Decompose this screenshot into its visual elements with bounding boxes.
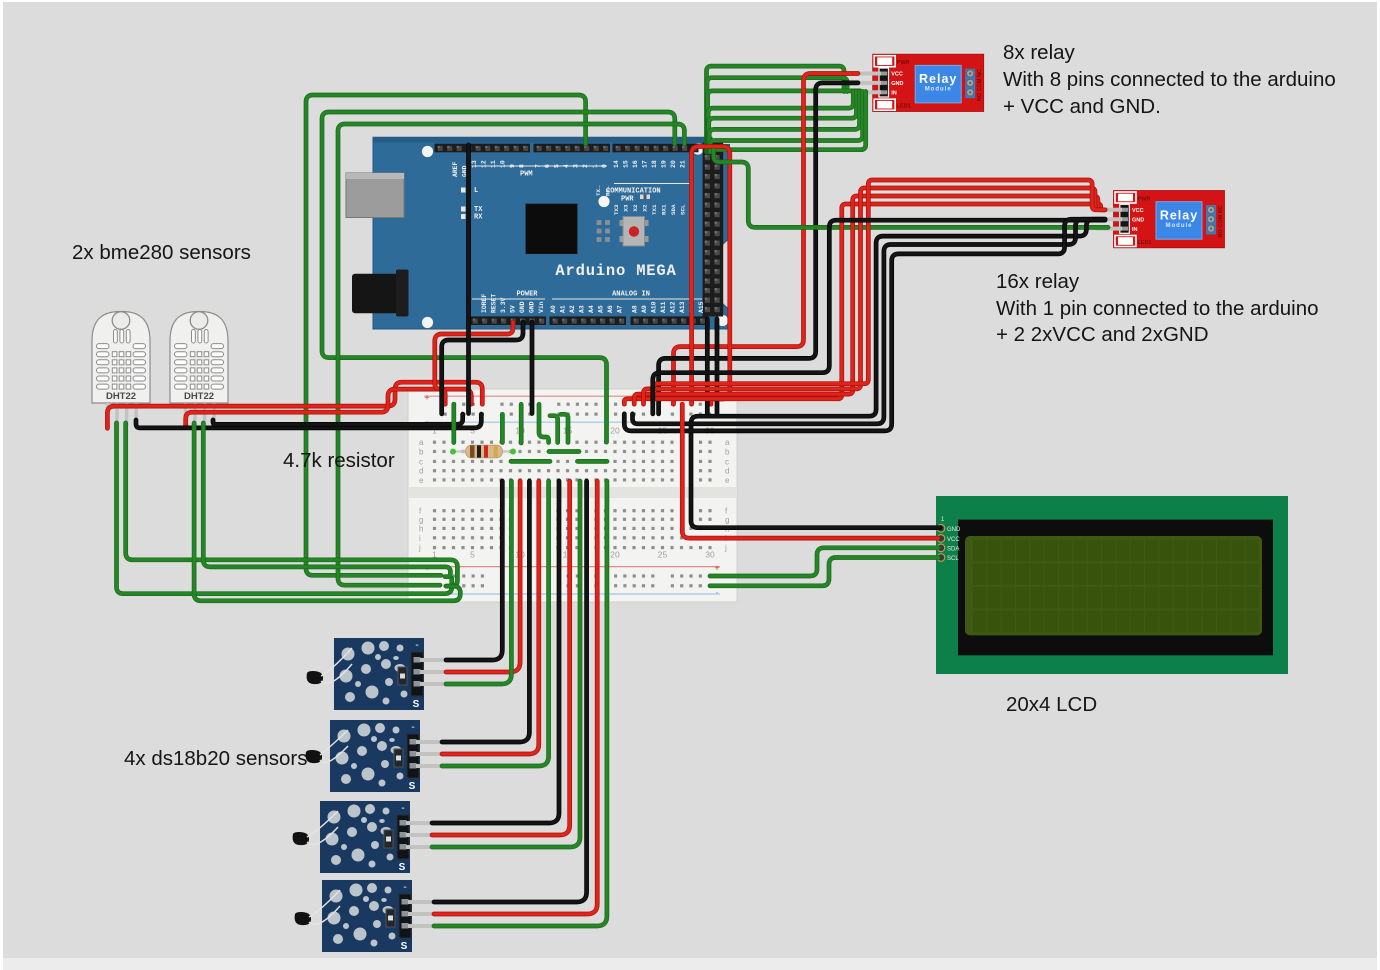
svg-text:Vin: Vin — [538, 301, 545, 313]
svg-text:-: - — [716, 588, 719, 598]
svg-text:11: 11 — [490, 160, 497, 168]
svg-text:3.3V: 3.3V — [500, 297, 507, 313]
svg-text:A1: A1 — [560, 305, 567, 313]
svg-text:A2: A2 — [569, 305, 576, 313]
wire: 16x relay VCC #3 to + rail — [644, 188, 1106, 404]
wire: arduino pin to 8x relay IN #3 — [708, 91, 860, 152]
svg-text:IOREF: IOREF — [481, 294, 488, 313]
svg-text:A4: A4 — [588, 305, 595, 313]
wire: 16x relay GND #2 + LCD GND — [691, 219, 1105, 528]
svg-text:PWR: PWR — [897, 60, 910, 66]
svg-text:A3: A3 — [579, 305, 586, 313]
svg-text:A8: A8 — [632, 305, 639, 313]
right double pin header — [703, 143, 724, 317]
svg-text:30: 30 — [705, 550, 715, 560]
wire: arduino pin to 8x relay IN #8 — [710, 92, 865, 153]
svg-text:GND: GND — [947, 527, 961, 533]
USB connector — [346, 173, 404, 218]
wire: ds18b20 #3 GND — [432, 481, 559, 823]
svg-text:d: d — [419, 467, 423, 476]
svg-text:S: S — [399, 862, 406, 873]
wire: arduino pin to 8x relay IN #5 — [709, 92, 857, 153]
svg-text:4x ds18b20 sensors: 4x ds18b20 sensors — [124, 747, 307, 770]
wire: ds18b20 #1 DATA — [446, 481, 511, 684]
wire: staple +rail to row a col3 — [451, 404, 456, 442]
svg-text:PWM: PWM — [520, 171, 533, 179]
svg-text:A12: A12 — [670, 301, 677, 313]
wire: pin2 loop to bottom rail — [306, 95, 586, 575]
wire: 16x relay GND #1 — [653, 220, 1105, 414]
svg-text:g: g — [725, 515, 729, 524]
DHT22 sensor #2 (bme280) — [170, 312, 228, 427]
svg-text:IN: IN — [1132, 227, 1138, 233]
svg-text:20: 20 — [610, 426, 620, 436]
top pin header (14..21) — [613, 144, 699, 153]
wire: row c jumper cols16-19 — [578, 459, 608, 464]
wire: 8x relay VCC to + rail — [674, 74, 859, 405]
wire: row b jumper cols13-16 — [549, 449, 579, 454]
wire: 5V to + rail — [435, 322, 513, 404]
ds18b20 sensor blob #2 — [306, 730, 348, 763]
svg-text:NO COM NC: NO COM NC — [1218, 205, 1224, 237]
wire: staple col8 — [500, 414, 505, 442]
svg-text:18: 18 — [651, 160, 658, 168]
svg-text:IN: IN — [891, 91, 897, 97]
svg-text:A11: A11 — [660, 301, 667, 313]
wire: +rail jumper loop around header — [692, 147, 730, 405]
ds18b20 module #1 — [334, 638, 446, 710]
svg-text:Module: Module — [1166, 223, 1193, 229]
svg-text:20: 20 — [610, 550, 620, 560]
svg-text:5V: 5V — [510, 305, 517, 313]
svg-text:20x4 LCD: 20x4 LCD — [1006, 693, 1097, 716]
DHT22 sensor #1 (bme280) — [92, 312, 150, 427]
wire: DHT1 GND to - rail — [136, 414, 481, 428]
svg-text:+: + — [424, 393, 429, 403]
wire: ds18b20 #1 VCC — [446, 481, 520, 672]
svg-text:POWER: POWER — [516, 291, 538, 299]
ds18b20 sensor blob #4 — [295, 890, 340, 925]
svg-text:TX3: TX3 — [613, 204, 620, 215]
svg-text:S: S — [409, 781, 416, 792]
svg-text:-: - — [401, 803, 404, 814]
svg-text:h: h — [419, 524, 423, 533]
wire: DHT2 GND to - rail — [213, 414, 463, 424]
svg-text:+ VCC and GND.: + VCC and GND. — [1003, 95, 1161, 118]
resistor R1 4.7k — [450, 445, 516, 458]
wire: +rail to LCD VCC — [682, 404, 938, 538]
ds18b20 module #4 — [322, 880, 434, 952]
wire: staple col12-13 — [539, 404, 549, 442]
svg-text:COMMUNICATION: COMMUNICATION — [606, 188, 661, 196]
svg-text:SDA: SDA — [670, 204, 677, 215]
bottom ANALOG header A0-A7 — [550, 316, 627, 325]
svg-text:L: L — [474, 187, 478, 195]
8x relay module K1 — [873, 54, 984, 111]
svg-text:16x relay: 16x relay — [996, 270, 1080, 293]
svg-text:e: e — [419, 476, 424, 485]
svg-text:SCL: SCL — [947, 556, 959, 562]
svg-text:PWR: PWR — [621, 196, 634, 204]
20x4 LCD module — [922, 496, 1288, 674]
svg-text:4.7k resistor: 4.7k resistor — [283, 449, 395, 472]
svg-text:25: 25 — [658, 550, 668, 560]
svg-text:20: 20 — [670, 160, 677, 168]
svg-text:VCC: VCC — [947, 537, 960, 543]
svg-text:A13: A13 — [679, 301, 686, 313]
svg-text:b: b — [419, 448, 424, 457]
top pin header (7..0) — [534, 144, 611, 153]
svg-text:+ 2 2xVCC and 2xGND: + 2 2xVCC and 2xGND — [996, 323, 1209, 346]
wire: ds18b20 #4 VCC — [434, 481, 597, 914]
wire: arduino pin to 8x relay IN #4 — [708, 92, 853, 153]
svg-text:b: b — [725, 448, 730, 457]
svg-text:ANALOG IN: ANALOG IN — [612, 291, 650, 299]
wire: DHT1 data A to bottom rail — [117, 423, 452, 594]
relay K2 pin stubs — [1096, 210, 1122, 229]
wire: ds18b20 #2 VCC — [442, 481, 539, 754]
svg-text:13: 13 — [471, 160, 478, 168]
wire: 8x relay GND to - rail — [659, 83, 858, 414]
wire: arduino pin to 8x relay IN #2 — [707, 78, 847, 152]
wire: staple col14 — [550, 416, 558, 443]
svg-text:j: j — [724, 544, 727, 553]
svg-text:With 8 pins connected to the a: With 8 pins connected to the arduino — [1003, 68, 1336, 91]
svg-text:g: g — [419, 515, 423, 524]
wire: ds18b20 #1 GND — [446, 481, 502, 660]
svg-text:A10: A10 — [651, 301, 658, 313]
svg-text:A5: A5 — [598, 305, 605, 313]
svg-text:i: i — [419, 534, 421, 543]
wire: ds18b20 #3 VCC — [432, 481, 570, 835]
wire: top GND down to - rail — [466, 145, 471, 414]
wire: 16x relay GND #4 — [624, 219, 1105, 431]
wire: ds18b20 #4 DATA — [434, 481, 607, 926]
wire: DHT1 VCC to + rail — [107, 382, 482, 428]
ds18b20 module #3 — [320, 801, 432, 873]
svg-text:Arduino MEGA: Arduino MEGA — [555, 262, 676, 280]
svg-text:-: - — [411, 722, 414, 733]
wire: bottom rail to LCD SCL — [710, 558, 938, 586]
svg-text:GND: GND — [529, 301, 536, 313]
svg-text:DHT22: DHT22 — [184, 391, 214, 402]
wire: row c jumper cols9-13 — [511, 459, 550, 464]
svg-text:PWR: PWR — [1138, 197, 1151, 203]
svg-text:14: 14 — [613, 160, 620, 168]
ds18b20 sensor blob #3 — [293, 811, 338, 845]
wire: GND to - rail A — [442, 322, 523, 414]
wire: 16x relay VCC #1 to + rail — [624, 204, 1105, 404]
svg-text:VCC: VCC — [1132, 208, 1144, 214]
svg-text:A6: A6 — [607, 305, 614, 313]
svg-text:A9: A9 — [641, 305, 648, 313]
reset button — [620, 212, 648, 250]
wire: ds18b20 #2 DATA — [442, 481, 549, 766]
Arduino MEGA board U1 — [346, 137, 730, 329]
svg-text:LED1: LED1 — [897, 104, 911, 110]
svg-text:c: c — [419, 457, 423, 466]
wire: 16x relay VCC #2 to + rail — [634, 196, 1105, 404]
wire: A15 gnd to - rail — [715, 319, 720, 414]
svg-text:2x bme280 sensors: 2x bme280 sensors — [72, 241, 251, 264]
wire: 16x relay GND #3 — [633, 219, 1106, 424]
svg-text:Module: Module — [925, 87, 952, 93]
16x relay module K2 — [1114, 191, 1225, 248]
svg-text:GND: GND — [1132, 217, 1144, 223]
wire: DHT2 VCC to + rail — [186, 389, 472, 425]
svg-text:Relay: Relay — [919, 72, 957, 86]
wire: arduino pin to 16x relay IN — [714, 150, 1109, 227]
svg-text:TX→: TX→ — [595, 185, 602, 196]
wire: A14 gnd to - rail — [705, 319, 710, 414]
svg-text:RX1: RX1 — [661, 204, 668, 215]
wire: arduino pin to 8x relay IN #1 — [707, 66, 845, 152]
svg-text:17: 17 — [642, 160, 649, 168]
svg-text:A15: A15 — [698, 301, 705, 313]
wire: ds18b20 #4 GND — [434, 481, 587, 902]
wire: GND to - rail B — [530, 322, 535, 414]
wire: DHT2 data A to bottom rail — [194, 423, 460, 601]
wire: bottom rail to LCD SDA — [710, 548, 938, 576]
wire: staple col15 — [561, 414, 568, 442]
svg-text:-: - — [403, 882, 406, 893]
svg-text:AREF: AREF — [452, 161, 459, 177]
svg-text:e: e — [725, 476, 730, 485]
svg-text:Relay: Relay — [1160, 209, 1198, 223]
ISP pin grid — [594, 218, 613, 244]
svg-text:S: S — [401, 941, 408, 952]
wire: arduino pin to 8x relay IN #7 — [710, 92, 863, 153]
svg-text:SDA: SDA — [947, 546, 959, 552]
svg-text:S: S — [413, 699, 420, 710]
wire: DHT2 data B to bottom rail — [203, 423, 450, 577]
svg-text:21: 21 — [680, 160, 687, 168]
svg-text:With 1 pin connected to the ar: With 1 pin connected to the arduino — [996, 297, 1319, 320]
svg-text:12: 12 — [481, 160, 488, 168]
svg-text:+: + — [714, 563, 719, 573]
svg-text:c: c — [725, 457, 729, 466]
wire: SCL loop to bottom rail — [338, 124, 684, 585]
svg-text:d: d — [725, 467, 729, 476]
svg-text:RESET: RESET — [491, 294, 498, 313]
wire: ds18b20 #2 GND — [442, 481, 529, 742]
wire: DHT1 data B to bottom rail — [126, 423, 458, 586]
wire: 16x relay VCC #4 to + rail — [653, 180, 1105, 404]
svg-text:15: 15 — [623, 160, 630, 168]
ds18b20 module #2 — [330, 720, 442, 792]
svg-text:VCC: VCC — [891, 72, 903, 78]
svg-text:GND: GND — [519, 301, 526, 313]
svg-text:GND: GND — [891, 81, 903, 87]
top pin header (AREF..8) — [435, 144, 531, 153]
svg-text:RX: RX — [474, 214, 483, 222]
svg-text:19: 19 — [661, 160, 668, 168]
svg-text:5: 5 — [470, 550, 475, 560]
svg-text:a: a — [419, 438, 424, 447]
svg-text:DHT22: DHT22 — [106, 391, 136, 402]
relay K1 pin stubs — [856, 74, 881, 93]
svg-text:A0: A0 — [550, 305, 557, 313]
svg-text:8x relay: 8x relay — [1003, 41, 1076, 64]
svg-text:-: - — [415, 640, 418, 651]
svg-text:A7: A7 — [617, 305, 624, 313]
svg-text:LED1: LED1 — [1138, 240, 1152, 246]
svg-text:10: 10 — [500, 160, 507, 168]
wire: SDA loop to breadboard row a col19 — [322, 112, 675, 442]
bottom ANALOG header A8-A15 — [631, 316, 708, 325]
breadboard — [408, 389, 737, 602]
wire: ds18b20 #3 DATA — [432, 481, 580, 847]
power jack — [352, 274, 409, 314]
LED indicators L TX RX — [461, 188, 466, 193]
svg-text:NO COM NC: NO COM NC — [977, 69, 983, 101]
ds18b20 sensor blob #1 — [307, 648, 352, 684]
svg-text:TX1: TX1 — [651, 204, 658, 215]
svg-text:16: 16 — [632, 160, 639, 168]
svg-text:a: a — [725, 438, 730, 447]
main MCU chip — [526, 204, 578, 254]
bottom POWER header — [470, 316, 547, 325]
svg-text:j: j — [418, 544, 421, 553]
svg-text:SCL: SCL — [680, 204, 687, 215]
wire: staple col10 — [519, 404, 524, 443]
wire: arduino pin to 8x relay IN #6 — [709, 92, 859, 153]
